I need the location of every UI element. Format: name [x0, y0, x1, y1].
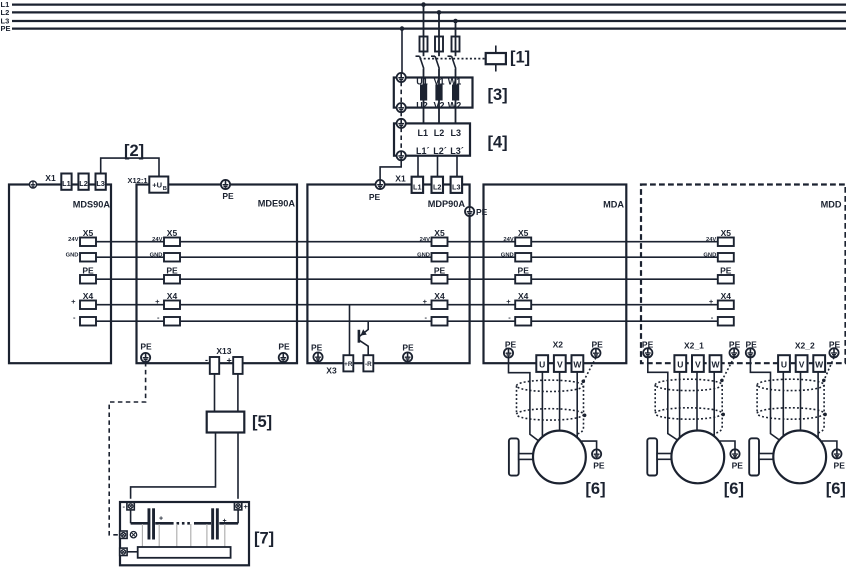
svg-text:+: + [244, 502, 249, 511]
svg-text:B: B [163, 186, 167, 192]
svg-text:U2: U2 [416, 101, 428, 111]
svg-text:PE: PE [476, 207, 488, 217]
svg-text:PE: PE [729, 340, 741, 350]
svg-text:PE: PE [222, 191, 234, 201]
svg-text:L1´: L1´ [416, 146, 430, 156]
svg-text:L2: L2 [79, 179, 88, 188]
svg-text:L2´: L2´ [433, 146, 447, 156]
svg-text:L2: L2 [434, 128, 445, 138]
svg-text:L1: L1 [62, 179, 71, 188]
svg-text:[2]: [2] [124, 142, 144, 160]
svg-text:X2_2: X2_2 [795, 341, 815, 351]
svg-text:[3]: [3] [488, 86, 508, 104]
svg-text:PE: PE [746, 340, 758, 350]
svg-text:PE: PE [140, 342, 152, 352]
svg-text:L3´: L3´ [450, 146, 464, 156]
svg-text:PE: PE [642, 340, 654, 350]
svg-text:PE: PE [311, 343, 323, 353]
svg-text:X13: X13 [216, 346, 231, 356]
svg-text:+R: +R [344, 361, 353, 368]
svg-text:+: + [223, 518, 227, 525]
svg-text:[1]: [1] [510, 49, 530, 67]
svg-text:L2: L2 [433, 182, 442, 191]
svg-text:X2: X2 [553, 340, 564, 350]
svg-text:X12:1: X12:1 [127, 176, 147, 185]
svg-text:+U: +U [152, 181, 162, 190]
svg-text:W2: W2 [448, 101, 462, 111]
svg-text:L3: L3 [451, 128, 462, 138]
svg-text:PE: PE [505, 340, 517, 350]
svg-text:[5]: [5] [252, 413, 272, 431]
svg-text:MDD: MDD [821, 200, 842, 210]
svg-text:[4]: [4] [488, 134, 508, 152]
svg-text:PE: PE [592, 340, 604, 350]
svg-text:X2_1: X2_1 [684, 341, 704, 351]
svg-text:[7]: [7] [254, 530, 274, 548]
svg-text:MDE90A: MDE90A [258, 199, 296, 209]
svg-text:PE: PE [402, 343, 414, 353]
svg-text:+: + [227, 356, 232, 366]
svg-text:L3: L3 [452, 182, 461, 191]
svg-text:MDS90A: MDS90A [73, 200, 111, 210]
svg-text:X3: X3 [326, 366, 337, 376]
svg-text:V2: V2 [433, 101, 444, 111]
svg-text:L3: L3 [96, 179, 105, 188]
svg-text:L1: L1 [413, 182, 422, 191]
svg-text:-: - [205, 355, 208, 365]
svg-text:+: + [159, 516, 163, 523]
svg-text:PE: PE [369, 192, 381, 202]
svg-text:X1: X1 [395, 174, 406, 184]
svg-text:L1: L1 [418, 128, 429, 138]
svg-text:MDP90A: MDP90A [428, 199, 466, 209]
svg-text:X1: X1 [45, 173, 56, 183]
svg-text:-R: -R [365, 361, 372, 368]
svg-text:PE: PE [1, 24, 11, 33]
svg-text:MDA: MDA [603, 200, 624, 210]
svg-text:PE: PE [278, 342, 290, 352]
svg-text:PE: PE [829, 340, 841, 350]
